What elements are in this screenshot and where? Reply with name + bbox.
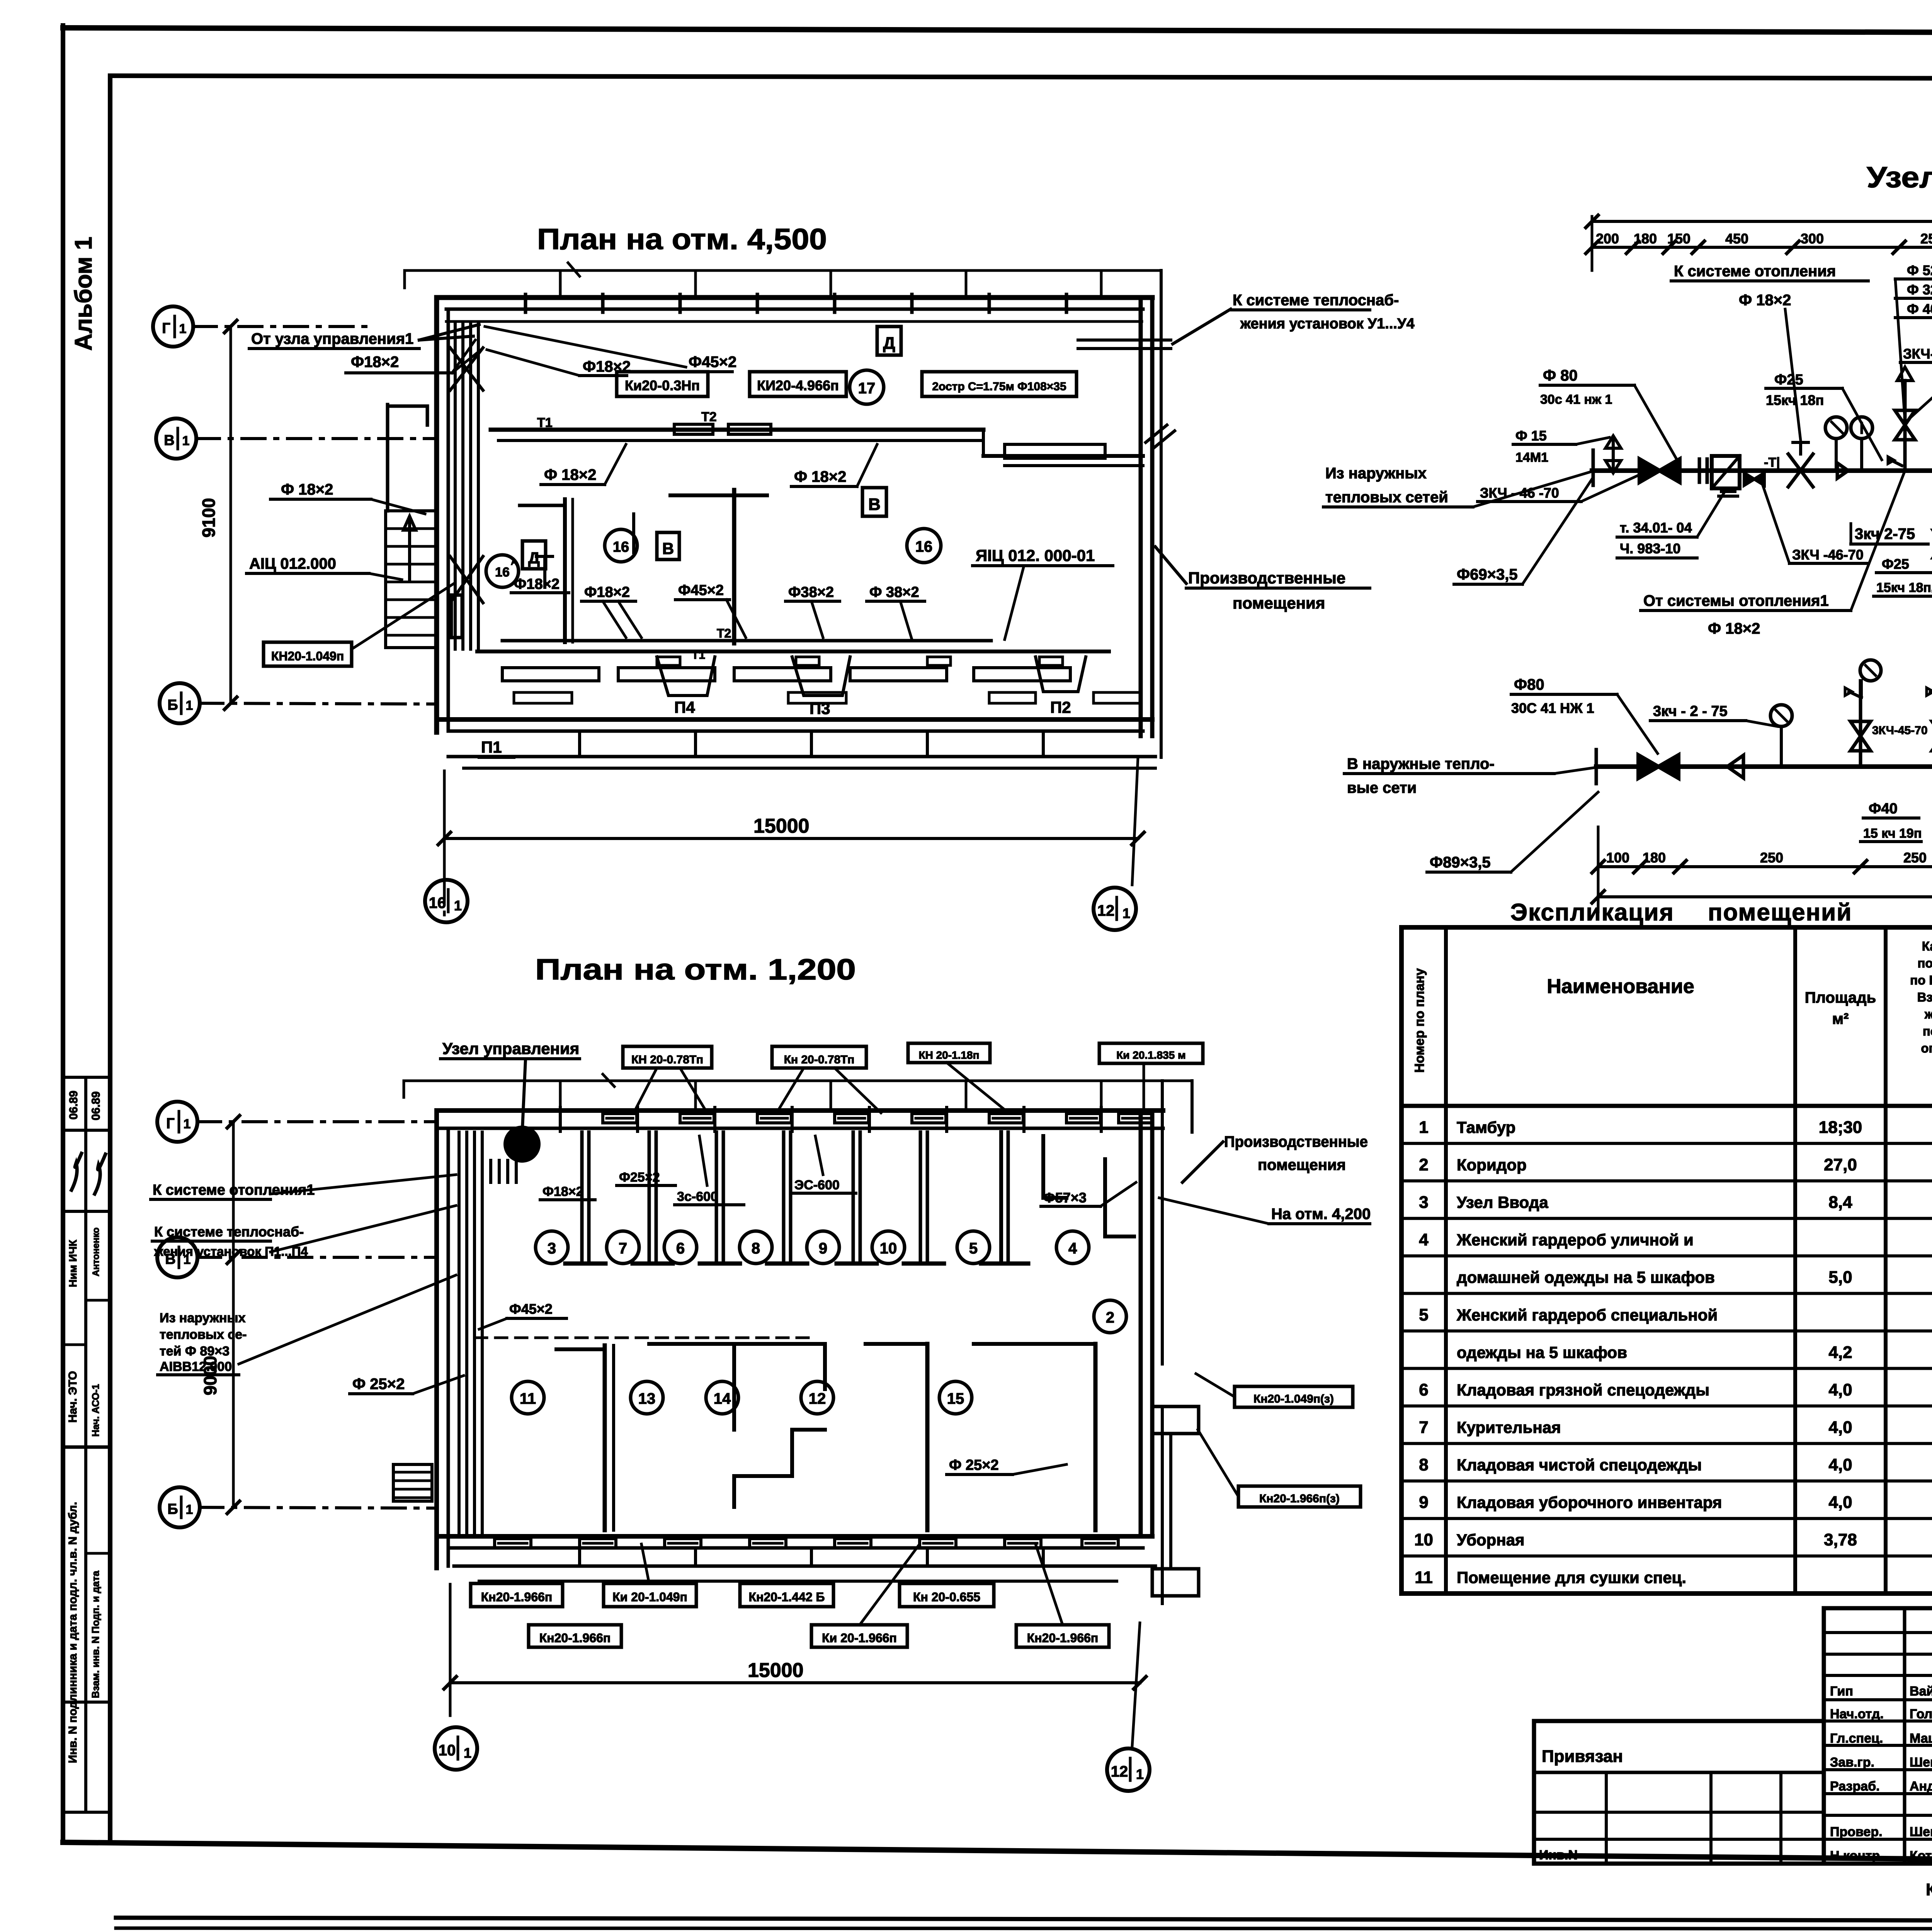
svg-text:3,78: 3,78: [1824, 1531, 1857, 1549]
gauges on T1 left pair: [1825, 417, 1847, 471]
plan2 room circle 13: [631, 1381, 663, 1414]
plan2 stair: [393, 1464, 432, 1501]
svg-text:30с 41 нж 1: 30с 41 нж 1: [1540, 392, 1612, 407]
svg-text:15кч 18п 2: 15кч 18п 2: [1876, 580, 1932, 595]
plan1 label Ф18х2 under pipe right: [791, 444, 877, 486]
plan1 room letter box В mid: [862, 488, 886, 516]
svg-text:Ф 18×2: Ф 18×2: [544, 466, 596, 483]
svg-text:180: 180: [1643, 850, 1666, 866]
svg-text:250: 250: [1920, 231, 1932, 247]
plan1 stair: [386, 511, 436, 648]
plan2 right wall: [1141, 1081, 1192, 1604]
svg-text:Кн20-1.966п: Кн20-1.966п: [481, 1590, 553, 1604]
branch riser at 4930: [1888, 367, 1915, 471]
svg-text:Антоненко: Антоненко: [91, 1228, 101, 1277]
svg-text:пожарной: пожарной: [1923, 1024, 1932, 1038]
pipe T1 top: [1592, 468, 1932, 473]
svg-text:Ф25×2: Ф25×2: [619, 1170, 660, 1185]
svg-text:К системе теплоснаб-: К системе теплоснаб-: [154, 1224, 304, 1240]
svg-text:Андреева: Андреева: [1910, 1779, 1932, 1794]
svg-text:Тамбур: Тамбур: [1457, 1118, 1515, 1136]
svg-text:12: 12: [1111, 1763, 1128, 1780]
plan2 lower rooms walls: [556, 1344, 1095, 1530]
svg-text:-Т|: -Т|: [1764, 455, 1780, 470]
plan1 grid leader lines: [193, 327, 437, 704]
svg-text:3кч - 2 - 75: 3кч - 2 - 75: [1653, 703, 1728, 719]
svg-text:Т1: Т1: [537, 415, 553, 430]
plan1 label Ф18х2 top: [346, 340, 481, 373]
valve on T1: [1639, 459, 1660, 482]
svg-text:200: 200: [1596, 231, 1619, 247]
svg-text:1: 1: [182, 434, 190, 448]
svg-text:ЭС-600: ЭС-600: [794, 1178, 840, 1192]
svg-text:4,0: 4,0: [1828, 1418, 1852, 1437]
labels on T2 branches: [1872, 724, 1928, 737]
labels f52 f32 f40: [1895, 262, 1932, 421]
svg-text:Ф 15: Ф 15: [1515, 428, 1547, 444]
svg-text:4,2: 4,2: [1828, 1343, 1852, 1362]
plan2 axis circle 10|1: [435, 1727, 477, 1770]
plan1 label Ф18х2 under pipe left: [541, 444, 626, 485]
plan1 axis circle 12|1: [1094, 888, 1136, 930]
svg-text:2остр C=1.75м Ф108×35: 2остр C=1.75м Ф108×35: [932, 380, 1066, 393]
svg-text:Мацалевский: Мацалевский: [1910, 1731, 1932, 1746]
svg-text:Курительная: Курительная: [1457, 1418, 1561, 1437]
svg-text:2: 2: [1419, 1155, 1428, 1174]
label т.34.01-04: [1617, 491, 1725, 558]
svg-text:Ф45×2: Ф45×2: [678, 582, 724, 599]
plan1 top wall band: [437, 294, 1152, 321]
svg-text:4,0: 4,0: [1828, 1380, 1852, 1399]
svg-text:16: 16: [915, 538, 933, 555]
svg-text:К системе отопления1: К системе отопления1: [153, 1182, 315, 1198]
plan2 top wall band: [437, 1107, 1163, 1131]
svg-text:8,4: 8,4: [1828, 1193, 1852, 1212]
svg-text:Зав.гр.: Зав.гр.: [1830, 1755, 1874, 1770]
svg-text:КН 20-0.78Тп: КН 20-0.78Тп: [631, 1053, 703, 1066]
svg-text:Привязан: Привязан: [1542, 1747, 1623, 1766]
top dim total 2850: [1586, 201, 1932, 457]
left strip stamp cells: [63, 1077, 110, 1812]
svg-text:2: 2: [1106, 1309, 1114, 1326]
svg-text:Гл.спец.: Гл.спец.: [1830, 1731, 1883, 1746]
flow arrow on T1: [1837, 463, 1848, 478]
svg-text:Нач.отд.: Нач.отд.: [1830, 1707, 1884, 1721]
label Производственные помещения: [1155, 547, 1370, 612]
valve on T2 left: [1638, 755, 1658, 778]
svg-text:ЗКЧ-46-70: ЗКЧ-46-70: [1903, 346, 1932, 362]
svg-text:1: 1: [464, 1745, 471, 1761]
plan1 room circle 17: [850, 370, 884, 404]
flange pair: [1699, 459, 1707, 482]
svg-text:жения установок У1...У4: жения установок У1...У4: [1240, 316, 1415, 332]
plan1 riser pipes bundle: [450, 324, 483, 649]
plan1 bottom panel rectangles: [502, 668, 1140, 703]
plan1 right pipe stub to systems: [1078, 340, 1171, 349]
plan2 label Ф 25х2: [350, 1376, 464, 1394]
svg-text:6: 6: [676, 1240, 685, 1257]
svg-text:Ф25: Ф25: [1774, 372, 1803, 388]
svg-text:16: 16: [613, 539, 629, 555]
label ф15 14М1: [1513, 428, 1609, 465]
svg-text:4: 4: [1419, 1230, 1429, 1249]
plan2 bottom radiators: [495, 1539, 1118, 1548]
pipe T2 start tick: [1595, 750, 1598, 784]
svg-text:Ф18×2: Ф18×2: [583, 358, 631, 375]
svg-text:300: 300: [1801, 231, 1824, 247]
plan1 room box Д lower: [522, 541, 546, 569]
svg-text:Ф38×2: Ф38×2: [788, 584, 834, 600]
svg-text:Голубаренко: Голубаренко: [1910, 1707, 1932, 1721]
svg-text:15кч 18п: 15кч 18п: [1766, 392, 1824, 408]
svg-text:Категория: Категория: [1922, 939, 1932, 953]
plan2 label На отм. 4,200: [1159, 1198, 1371, 1224]
label В наружные тепловые сети: [1344, 755, 1596, 796]
label ф80 30С41НЖ1 bottom left: [1511, 676, 1658, 753]
svg-text:Помещение для сушки спец.: Помещение для сушки спец.: [1457, 1568, 1686, 1587]
svg-text:П4: П4: [674, 698, 695, 716]
svg-text:Ф 18×2: Ф 18×2: [281, 481, 333, 498]
svg-text:Площадь: Площадь: [1805, 989, 1876, 1006]
svg-text:Кн20-1.966п: Кн20-1.966п: [539, 1631, 611, 1645]
svg-text:Ф89×3,5: Ф89×3,5: [1430, 854, 1491, 871]
branch ЗКЧ-45-2 on T2: [1927, 660, 1932, 767]
plan2 small labels near top: [540, 1184, 595, 1200]
svg-text:9100: 9100: [199, 498, 219, 537]
svg-text:30С 41 НЖ 1: 30С 41 НЖ 1: [1511, 700, 1594, 716]
svg-text:4,0: 4,0: [1828, 1493, 1852, 1512]
svg-text:жарной и: жарной и: [1924, 1007, 1932, 1021]
svg-text:1: 1: [186, 698, 193, 713]
plan2 KN leader lines: [641, 1544, 1063, 1625]
svg-text:Ф 25×2: Ф 25×2: [352, 1376, 405, 1393]
svg-text:Взам. инв. N Подп. и дата: Взам. инв. N Подп. и дата: [90, 1571, 101, 1698]
svg-text:План на отм. 1,200: План на отм. 1,200: [535, 953, 856, 986]
svg-text:10: 10: [1414, 1531, 1433, 1549]
svg-text:м²: м²: [1832, 1010, 1849, 1027]
plan2 KN box Ки 20-1.049п: [604, 1583, 696, 1607]
svg-text:Ки 20-1.966п: Ки 20-1.966п: [822, 1631, 897, 1645]
svg-text:250: 250: [1903, 850, 1927, 866]
svg-text:Уборная: Уборная: [1457, 1531, 1525, 1549]
plan2 room circle 12: [801, 1381, 833, 1414]
plan1 right leader to systems: [1173, 292, 1415, 344]
svg-text:1: 1: [1419, 1118, 1428, 1137]
svg-text:К системе отопления: К системе отопления: [1674, 263, 1836, 280]
svg-text:100: 100: [1606, 850, 1629, 866]
svg-text:Ф69×3,5: Ф69×3,5: [1457, 566, 1518, 583]
plan1 dimension 15000: [438, 757, 1144, 885]
plan2 room circle 10: [872, 1231, 905, 1264]
svg-text:А: А: [511, 557, 517, 567]
svg-text:План на отм. 4,500: План на отм. 4,500: [537, 223, 827, 256]
svg-text:Ч. 983-10: Ч. 983-10: [1620, 541, 1680, 556]
svg-text:Женский гардероб уличной и: Женский гардероб уличной и: [1456, 1231, 1694, 1249]
plan1 equip label boxes: [617, 372, 708, 396]
svg-text:На отм. 4,200: На отм. 4,200: [1271, 1206, 1371, 1223]
svg-text:помещений: помещений: [1917, 956, 1932, 970]
plan2 label Ф 25х2 lower right: [947, 1457, 1066, 1475]
svg-text:Вайсбанд: Вайсбанд: [1910, 1684, 1932, 1699]
svg-text:Кн 20-0.78Тп: Кн 20-0.78Тп: [784, 1053, 855, 1066]
plan2 room circle 5: [957, 1231, 990, 1264]
svg-text:Нач. ЭТО: Нач. ЭТО: [66, 1371, 79, 1423]
plan1 building top offset line: [405, 263, 1159, 297]
svg-text:Ф57×3: Ф57×3: [1043, 1190, 1087, 1206]
svg-text:КН 20-1.18п: КН 20-1.18п: [919, 1049, 980, 1061]
plan2 KN box Ки 20-1.966п lower: [811, 1625, 907, 1647]
svg-text:Гип: Гип: [1830, 1684, 1853, 1699]
plan1 grid axis circle В1: [156, 418, 196, 459]
svg-text:Ф18×2: Ф18×2: [584, 584, 630, 600]
plan1 vertical dimension 9000: [199, 320, 237, 709]
plan2 room circle 11: [512, 1381, 544, 1414]
svg-text:9: 9: [1419, 1493, 1428, 1512]
plan2 label Узел управления: [440, 1039, 580, 1128]
svg-text:по Взрывной,: по Взрывной,: [1910, 973, 1932, 987]
svg-text:Г: Г: [162, 320, 170, 337]
plan2 room circle 15: [939, 1381, 972, 1414]
svg-text:КИ20-4.966п: КИ20-4.966п: [757, 378, 839, 393]
plan2 riser bundle and entry circle: [459, 1128, 538, 1536]
svg-text:АIЦ 012.000: АIЦ 012.000: [249, 555, 336, 572]
label ф89х3,5: [1427, 792, 1598, 872]
svg-text:Г: Г: [166, 1116, 175, 1132]
svg-text:Производственные: Производственные: [1224, 1133, 1368, 1150]
plan2 vertical dim 9000: [200, 1116, 240, 1514]
svg-text:1: 1: [184, 1117, 191, 1131]
svg-text:Ф 32: Ф 32: [1907, 282, 1932, 298]
svg-text:6: 6: [1419, 1380, 1428, 1399]
svg-text:3: 3: [1419, 1193, 1428, 1212]
plan2 right protrusions: [1152, 1406, 1199, 1596]
plan1 room circle 16А: [486, 555, 519, 587]
svg-text:15 кч 19п: 15 кч 19п: [1863, 826, 1922, 841]
svg-text:1: 1: [454, 898, 462, 913]
svg-text:помещения: помещения: [1258, 1156, 1346, 1173]
plan1 label АIЦ 012.000: [247, 555, 402, 580]
svg-text:Инв.N: Инв.N: [1539, 1848, 1578, 1862]
svg-text:10: 10: [880, 1240, 897, 1257]
svg-text:ЗКЧ -46-70: ЗКЧ -46-70: [1792, 547, 1864, 563]
label ф80 30с41нж1 left: [1540, 367, 1677, 460]
svg-text:КН20-1.049п: КН20-1.049п: [271, 649, 344, 663]
svg-text:Кладовая уборочного инвентаря: Кладовая уборочного инвентаря: [1457, 1493, 1722, 1512]
svg-text:Ф 25×2: Ф 25×2: [949, 1457, 999, 1473]
label От системы отопления1: [1641, 471, 1905, 637]
svg-text:15: 15: [947, 1390, 964, 1407]
svg-text:3КЧ-45-70: 3КЧ-45-70: [1872, 724, 1928, 737]
svg-text:Экспликация: Экспликация: [1510, 899, 1674, 926]
svg-text:ЗКЧ - 46 -70: ЗКЧ - 46 -70: [1480, 485, 1559, 501]
svg-text:15000: 15000: [753, 815, 810, 837]
bottom dim total 2850: [1592, 827, 1932, 912]
plan2 grid circle Г1: [157, 1102, 197, 1142]
plan1 upper heat pipes T1 T2: [491, 410, 1143, 466]
plan2 KN boxes above: [623, 1046, 712, 1113]
plan1 wall break marks: [1146, 425, 1175, 448]
signature table roles: [1830, 1682, 1932, 1863]
plan2 KN box Кн20-1.442 Б: [740, 1583, 833, 1607]
plan2 KN box Кн20-1.966п: [471, 1583, 563, 1607]
plan1 label Ф18х2 mid-left: [511, 576, 569, 593]
svg-text:1: 1: [1122, 905, 1130, 921]
svg-text:Б: Б: [167, 697, 178, 713]
svg-text:тей Ф 89×3: тей Ф 89×3: [160, 1344, 230, 1359]
plan2 left labels: [151, 1175, 456, 1199]
svg-text:т. 34.01- 04: т. 34.01- 04: [1620, 520, 1692, 536]
relief valve on T1 left: [1605, 436, 1621, 473]
bottom sheet edge lines: [116, 1918, 1932, 1929]
svg-text:450: 450: [1725, 231, 1748, 247]
svg-text:Кн20-1.966п(з): Кн20-1.966п(з): [1259, 1492, 1340, 1505]
plan1 grid axis circle Г1: [153, 306, 193, 347]
plan2 room circle 14: [706, 1381, 738, 1414]
svg-text:250: 250: [1760, 850, 1783, 866]
Привязан box: [1534, 1721, 1824, 1864]
svg-text:ЯIЦ 012. 000-01: ЯIЦ 012. 000-01: [976, 546, 1095, 565]
plan2 right text Производственные: [1182, 1133, 1368, 1182]
plan1 label ЯIЦ 012.000-01: [973, 546, 1113, 639]
plan1 right wall: [1141, 270, 1161, 757]
svg-text:5,0: 5,0: [1828, 1268, 1852, 1287]
signature table: [1824, 1608, 1932, 1864]
plan2 grid leaders: [197, 1122, 437, 1508]
svg-text:К системе теплоснаб-: К системе теплоснаб-: [1233, 292, 1399, 309]
svg-text:Н.контр.: Н.контр.: [1830, 1849, 1884, 1863]
svg-text:8: 8: [1419, 1456, 1428, 1475]
plan1 labels f row: [582, 584, 641, 638]
svg-text:жения установок П1...П4: жения установок П1...П4: [154, 1244, 308, 1259]
svg-text:Ф80: Ф80: [1514, 676, 1544, 693]
svg-text:В: В: [868, 495, 881, 514]
label ф40 15кч19п bottom: [1861, 801, 1922, 842]
plan2 dashed corridor line: [475, 1337, 811, 1339]
plan2 KN boxes right: [1196, 1374, 1353, 1407]
svg-text:8: 8: [752, 1240, 760, 1257]
svg-text:7: 7: [1419, 1418, 1428, 1437]
plan1 lower heat pipes: [477, 626, 1109, 665]
svg-text:В: В: [164, 432, 174, 449]
plan2 left wall: [437, 1111, 448, 1568]
svg-text:17: 17: [858, 380, 876, 397]
svg-text:Наименование: Наименование: [1547, 975, 1694, 998]
svg-text:Ф18×2: Ф18×2: [543, 1184, 583, 1199]
svg-text:5: 5: [1419, 1305, 1428, 1324]
svg-text:Ф45×2: Ф45×2: [509, 1301, 553, 1317]
plan1 room letter box Д upper: [877, 327, 901, 355]
svg-text:вые сети: вые сети: [1347, 779, 1417, 796]
label ЗКИ-46-70 a: [1900, 346, 1932, 417]
svg-text:одежды на 5 шкафов: одежды на 5 шкафов: [1457, 1343, 1627, 1361]
plan1 room circle 16 lower: [605, 529, 637, 562]
svg-text:Ки20-0.3Нп: Ки20-0.3Нп: [625, 378, 700, 393]
svg-text:П1: П1: [481, 738, 502, 756]
svg-text:14М1: 14М1: [1515, 450, 1548, 465]
plan1 label Ф18х2 left outside: [270, 481, 425, 514]
explication table left: [1401, 927, 1932, 1594]
svg-text:Инв. N подлинника и дата подл.: Инв. N подлинника и дата подл. чл.в. N д…: [66, 1502, 79, 1763]
svg-text:5: 5: [969, 1240, 978, 1257]
svg-text:Кладовая чистой спецодежды: Кладовая чистой спецодежды: [1457, 1456, 1702, 1474]
svg-text:Узел: Узел: [1867, 161, 1932, 194]
svg-text:Кн20-1.049п(з): Кн20-1.049п(з): [1253, 1393, 1334, 1405]
svg-text:Производственные: Производственные: [1188, 569, 1345, 587]
svg-text:Ф18×2: Ф18×2: [351, 354, 399, 371]
svg-text:Ним ИЧК: Ним ИЧК: [67, 1240, 79, 1287]
plan1 room box В lower: [657, 532, 679, 560]
plan1 left wall: [437, 298, 448, 732]
svg-text:Ф 18×2: Ф 18×2: [794, 468, 846, 485]
plan2 room circle 7: [607, 1231, 639, 1264]
svg-text:Из наружных: Из наружных: [1325, 465, 1427, 482]
pipe T1 start tick: [1592, 450, 1595, 485]
svg-text:помещения: помещения: [1233, 594, 1325, 612]
label ЗКЧ-46-70 left: [1478, 475, 1638, 502]
plan2 top offset line: [404, 1074, 1192, 1109]
svg-text:Котенко: Котенко: [1910, 1849, 1932, 1863]
svg-text:В наружные тепло-: В наружные тепло-: [1347, 755, 1495, 772]
svg-text:18;30: 18;30: [1819, 1118, 1862, 1137]
svg-text:16: 16: [495, 565, 510, 580]
stamp signatures: [71, 1153, 82, 1190]
svg-text:06.89: 06.89: [90, 1091, 102, 1120]
plan2 grid circle Б1: [160, 1487, 200, 1527]
top dim segments: [1586, 216, 1932, 270]
svg-text:11: 11: [520, 1390, 536, 1407]
plan2 room circle 2 corridor: [1094, 1300, 1126, 1333]
svg-text:Узел управления: Узел управления: [442, 1039, 579, 1058]
svg-text:Ф18×2: Ф18×2: [514, 576, 560, 592]
svg-text:Кн 20-0.655: Кн 20-0.655: [913, 1590, 980, 1604]
svg-text:Взрыво-по-: Взрыво-по-: [1917, 990, 1932, 1004]
svg-text:Провер.: Провер.: [1830, 1825, 1883, 1839]
svg-text:тепловых сетей: тепловых сетей: [1325, 489, 1448, 506]
svg-text:домашней одежды на 5 шкафов: домашней одежды на 5 шкафов: [1457, 1268, 1715, 1286]
plan1 duct labels П4 П3 П2 П1: [657, 657, 715, 716]
svg-text:Ки 20-1.049п: Ки 20-1.049п: [612, 1590, 687, 1604]
branch ЗКЧ-45-70 on T2: [1845, 660, 1881, 767]
label ф69х3,5: [1454, 479, 1592, 584]
svg-text:10: 10: [439, 1742, 456, 1759]
svg-text:Шевляга: Шевляга: [1910, 1825, 1932, 1839]
plan2 room circle 4: [1056, 1231, 1089, 1264]
svg-text:П2: П2: [1050, 698, 1071, 716]
svg-text:Ф45×2: Ф45×2: [689, 354, 736, 371]
plan2 bottom wall band: [437, 1536, 1155, 1581]
svg-text:150: 150: [1667, 231, 1690, 247]
svg-text:Ки 20.1.835 м: Ки 20.1.835 м: [1116, 1049, 1186, 1061]
svg-text:Д: Д: [528, 549, 540, 567]
svg-text:Б: Б: [167, 1501, 178, 1517]
plan2 room circle 6: [664, 1231, 697, 1264]
plan2 dimension 15000: [444, 1584, 1146, 1747]
svg-text:Нач. АСО-1: Нач. АСО-1: [90, 1384, 101, 1437]
mud filter box: [1712, 456, 1740, 496]
svg-text:12: 12: [809, 1390, 826, 1407]
plan2 room circle 9: [807, 1231, 839, 1264]
svg-text:Шевлюга: Шевлюга: [1910, 1755, 1932, 1770]
svg-text:Ф 40: Ф 40: [1907, 301, 1932, 317]
svg-text:Узел Ввода: Узел Ввода: [1457, 1193, 1548, 1211]
label К системе отопления: [1671, 263, 1868, 440]
svg-text:1: 1: [1136, 1766, 1144, 1782]
svg-text:Т2: Т2: [701, 410, 717, 424]
svg-text:Ф 38×2: Ф 38×2: [869, 584, 919, 600]
plan1 corridor wall above stair: [388, 405, 427, 511]
plan1 interior walls: [520, 490, 767, 643]
svg-text:Ф40: Ф40: [1869, 801, 1898, 817]
